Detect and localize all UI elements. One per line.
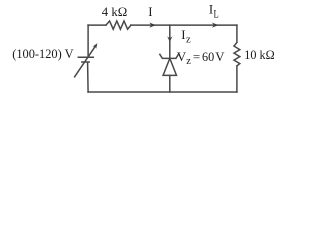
wire right branch upper [236, 25, 238, 42]
arrowhead current IL on top wire [212, 23, 219, 28]
battery short plate [82, 61, 89, 63]
svg-text:V: V [177, 49, 187, 64]
zener diode D1 triangle [163, 58, 176, 75]
zener branch wire upper [169, 25, 171, 58]
wire top middle to right corner [131, 24, 237, 26]
svg-text:I: I [148, 5, 152, 19]
zener branch wire lower [169, 75, 171, 92]
svg-text:V: V [215, 50, 225, 64]
svg-text:4 kΩ: 4 kΩ [102, 5, 128, 19]
svg-text:I: I [181, 28, 185, 42]
variable source arrow shaft [75, 47, 95, 77]
bottom wire [88, 91, 237, 93]
resistor R2 10 kΩ (vertical zigzag) [234, 42, 240, 66]
svg-text:(100-120) V: (100-120) V [12, 47, 73, 61]
wire top-left segment [88, 24, 106, 26]
wire left branch upper [87, 25, 89, 56]
battery long plate (variable source) [78, 56, 93, 58]
svg-text:10 kΩ: 10 kΩ [244, 48, 274, 62]
svg-text:z: z [186, 35, 191, 46]
svg-text:=: = [193, 49, 200, 64]
resistor R1 4 kΩ (horizontal zigzag) [106, 21, 131, 29]
svg-text:60: 60 [202, 50, 214, 64]
wire left branch lower [87, 63, 90, 92]
arrowhead current Iz on zener branch [167, 36, 172, 41]
zener diode D1 cathode bar with bent ticks [160, 54, 179, 59]
svg-text:L: L [214, 7, 219, 21]
arrowhead of variable source arrow [93, 43, 98, 49]
svg-text:z: z [186, 56, 191, 67]
wire right branch lower [236, 66, 238, 92]
arrowhead current I on top wire [149, 23, 156, 28]
